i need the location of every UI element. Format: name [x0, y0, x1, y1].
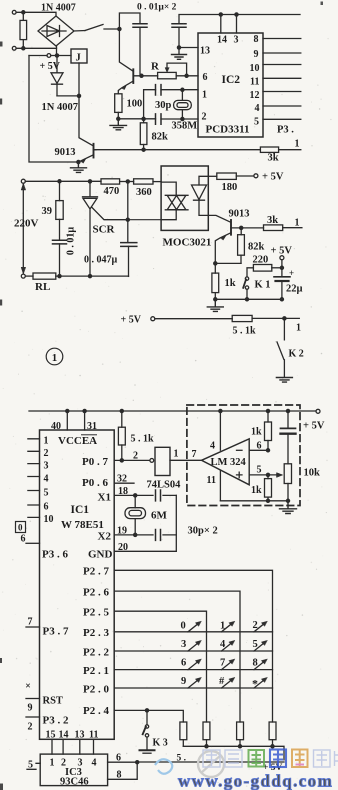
resistor pullup R3 — [237, 722, 244, 740]
wire pin4 V+ — [219, 411, 221, 450]
terminal +5V (keypad line) — [151, 317, 155, 321]
resistor 5.1k — [232, 315, 252, 321]
svg-text:6: 6 — [21, 534, 26, 545]
wire IC1 pin40 — [66, 411, 68, 430]
wire X2 pin19 — [114, 534, 176, 536]
svg-text:5 . 1k: 5 . 1k — [233, 326, 257, 337]
wire C1 bottom down to base node — [139, 27, 141, 76]
inverter input bubble — [150, 459, 154, 463]
ground under pot — [280, 501, 297, 514]
svg-text:#: # — [219, 676, 225, 687]
node dot K2 — [283, 317, 286, 320]
resistor 360 — [134, 179, 153, 184]
svg-text:3k: 3k — [267, 215, 278, 226]
svg-text:9: 9 — [254, 49, 259, 60]
terminal +5V relay — [47, 54, 51, 58]
bridge rectifier diamond — [38, 16, 74, 46]
capacitor filter — [287, 411, 289, 428]
svg-text:www.go-gddq.com: www.go-gddq.com — [178, 772, 333, 790]
wire X1 pin18 — [114, 494, 176, 496]
terminal mains bottom — [21, 274, 25, 278]
key 5 — [254, 642, 266, 651]
svg-text:X1: X1 — [98, 492, 111, 504]
svg-text:P2 . 6: P2 . 6 — [83, 587, 109, 599]
transistor Q1 driver (top middle) — [118, 29, 141, 94]
svg-text:10: 10 — [44, 514, 54, 525]
P0.6 stub pin32 — [114, 482, 134, 484]
wire P2.5 row to column A — [114, 611, 206, 722]
transistor Q2 9013 (relay driver) — [93, 144, 95, 158]
svg-text:IC1: IC1 — [71, 504, 90, 516]
bridge internal diode — [42, 26, 66, 37]
EA overline — [82, 434, 97, 436]
ground under 100 — [110, 119, 127, 130]
key 2 — [254, 623, 266, 632]
svg-text:P2 . 0: P2 . 0 — [83, 684, 109, 696]
dashed box comparator — [187, 405, 300, 506]
wire 220 right to +5V node — [272, 267, 282, 269]
node dot collector top — [118, 27, 121, 30]
node dot — [286, 499, 289, 502]
svg-text:1: 1 — [174, 449, 179, 460]
svg-text:GND: GND — [88, 549, 113, 561]
resistor 180 — [217, 173, 237, 179]
IC1 W78E51 box — [40, 430, 115, 739]
RST stub pin 9 — [26, 698, 40, 700]
terminal AC input bottom — [12, 46, 16, 50]
wire 220 left to K1 — [247, 268, 253, 277]
svg-text:1k: 1k — [251, 427, 262, 438]
svg-text:13: 13 — [200, 46, 210, 57]
node dot — [266, 499, 269, 502]
svg-text:SCR: SCR — [93, 224, 116, 236]
node dot K3 — [145, 709, 148, 712]
svg-text:220V: 220V — [14, 218, 39, 230]
wire IC2 pin14 — [220, 15, 222, 34]
key hash — [222, 679, 234, 688]
svg-text:31: 31 — [87, 421, 97, 432]
svg-text:30p: 30p — [155, 100, 172, 111]
wire cap to bottom rail — [59, 244, 61, 276]
wire 39 to cap — [59, 219, 61, 240]
svg-text:100: 100 — [127, 99, 143, 110]
svg-text:6: 6 — [203, 72, 208, 83]
svg-text:74LS04: 74LS04 — [147, 480, 182, 491]
svg-text:+ 5V: + 5V — [262, 172, 284, 183]
svg-text:+: + — [289, 268, 294, 278]
capacitor 30p (X2) — [156, 530, 161, 541]
wire top rail to IC2 top pins — [179, 15, 300, 24]
wire 100 bottom node — [117, 112, 119, 118]
svg-text:470: 470 — [104, 186, 120, 197]
wire gate branch vertical — [127, 182, 129, 243]
MOC triac side wiring — [161, 182, 176, 220]
SCR thyristor — [83, 181, 98, 276]
node dot base — [140, 74, 143, 77]
terminal mains top — [21, 179, 25, 183]
switch K1 — [245, 277, 248, 280]
svg-text:180: 180 — [222, 182, 238, 193]
potentiometer R — [142, 75, 158, 77]
wire P2.0 keypad row4 — [114, 687, 272, 689]
flyback diode 1N4007 — [51, 56, 63, 96]
resistor 1k — [214, 263, 216, 299]
node dot emitter — [77, 160, 80, 163]
svg-text:5: 5 — [257, 465, 262, 476]
svg-text:4: 4 — [255, 103, 260, 114]
capacitor 30p upper — [156, 85, 162, 95]
switch K3 — [146, 710, 148, 749]
resistor 1k lower — [267, 475, 269, 501]
op-amp LM324 triangle — [202, 439, 250, 485]
svg-text:P3 . 6: P3 . 6 — [42, 549, 68, 561]
resistor 220 — [253, 265, 271, 272]
wire bottom node rail — [215, 298, 282, 300]
watermark blue char — [270, 750, 286, 768]
key 9 — [188, 679, 200, 688]
wire resistor stems — [22, 12, 24, 48]
edge marks scan — [0, 42, 3, 790]
svg-text:7: 7 — [220, 658, 225, 669]
wire pot to IC2 pin6 — [176, 75, 198, 77]
scan tick top right — [321, 2, 324, 6]
wire terminal down — [281, 260, 283, 277]
wire P2.1 keypad row3 — [114, 669, 272, 671]
svg-text:2: 2 — [28, 722, 33, 733]
capacitor 0.01u (snubber) — [53, 240, 67, 244]
key 3 — [188, 642, 200, 651]
svg-text:P3 . 7: P3 . 7 — [43, 626, 69, 638]
svg-text:W 78E51: W 78E51 — [61, 519, 104, 531]
Q3 emitter arrowhead — [221, 235, 227, 240]
minus input mark — [237, 449, 243, 451]
wire +5V line to 5.1k — [155, 318, 232, 320]
svg-text:MOC3021: MOC3021 — [163, 237, 212, 249]
wire collector to 3k — [241, 227, 263, 229]
wire 0.047 to bottom rail — [128, 246, 130, 276]
svg-text:2: 2 — [253, 620, 258, 631]
wire J bottom — [78, 63, 80, 96]
wire P0.7 pin2 to inverter — [114, 459, 150, 461]
wire collector rail to 3k — [94, 149, 260, 151]
svg-text:82k: 82k — [248, 242, 265, 253]
svg-text:P2 . 1: P2 . 1 — [83, 665, 109, 677]
svg-text:1: 1 — [202, 90, 207, 101]
svg-text:11: 11 — [250, 77, 259, 88]
key 0 — [188, 623, 200, 632]
wire P2.6 row to column B — [114, 591, 240, 722]
wire 5.1k to edge — [252, 317, 299, 319]
node dot 39 top — [58, 180, 61, 183]
figure number circle 1 — [46, 348, 63, 365]
node dot gate — [126, 218, 129, 221]
wire MOC to Q3 base — [208, 215, 231, 222]
node dot Q3 collector — [240, 226, 243, 229]
svg-text:0: 0 — [181, 621, 186, 632]
node dot — [134, 533, 137, 536]
svg-text:22µ: 22µ — [286, 284, 303, 295]
wire osc net X2 row — [118, 118, 198, 120]
svg-text:9013: 9013 — [229, 209, 250, 220]
stray mark — [27, 684, 30, 687]
watermark faint char 2 — [225, 750, 242, 767]
svg-text:19: 19 — [117, 526, 127, 537]
optocoupler MOC3021 box — [161, 166, 208, 230]
wire osc return vertical — [175, 495, 177, 551]
resistor 3k (IC2 line) — [260, 147, 278, 152]
wire P2.4 — [114, 710, 183, 722]
svg-text:5: 5 — [254, 117, 259, 128]
wire input 6 — [249, 449, 268, 451]
svg-text:11: 11 — [89, 730, 98, 741]
ground under C2 — [172, 55, 187, 60]
wire 3k to edge — [283, 227, 302, 229]
capacitor 0.047u — [121, 243, 137, 247]
wiper arrowhead — [165, 68, 169, 73]
key 6 — [188, 660, 200, 669]
svg-text:14: 14 — [217, 35, 227, 46]
P3.2 stub pin 2 — [26, 716, 40, 718]
connector box 0 — [16, 522, 26, 533]
wire IC2 pin3 — [236, 15, 238, 34]
resistor pullup R1 — [180, 722, 187, 740]
svg-text:3: 3 — [234, 35, 239, 46]
inverter 74LS04 box — [155, 447, 170, 475]
svg-text:1: 1 — [44, 436, 49, 447]
svg-text:P3 . 2: P3 . 2 — [43, 715, 69, 727]
wire bottom rail with RL — [25, 275, 33, 277]
svg-text:10: 10 — [250, 63, 260, 74]
svg-text:3: 3 — [44, 461, 49, 472]
wire switch to node — [104, 28, 119, 30]
node dot crystal bottom — [181, 117, 184, 120]
capacitor C2 0.01u — [172, 24, 186, 27]
resistor pullup R2 — [203, 722, 210, 740]
svg-text:2: 2 — [44, 448, 49, 459]
svg-text:VCCEA: VCCEA — [58, 435, 97, 447]
svg-text:1k: 1k — [225, 278, 236, 289]
watermark faint char 3 — [314, 750, 331, 767]
wire pin11 V- — [219, 471, 221, 501]
svg-text:1: 1 — [50, 758, 55, 769]
IC1 pin stubs left — [28, 439, 40, 518]
watermark faint char 1 — [203, 750, 220, 767]
watermark blue swirl — [155, 759, 172, 774]
svg-text:K 2: K 2 — [289, 349, 304, 360]
wire 470 to 360 — [120, 181, 134, 183]
node dot — [214, 262, 217, 265]
svg-text:6: 6 — [181, 658, 186, 669]
svg-text:6: 6 — [257, 441, 262, 452]
svg-text:1N 4007: 1N 4007 — [42, 102, 78, 113]
svg-text:40: 40 — [51, 421, 61, 432]
transistor Q3 9013 (opto driver) — [230, 220, 232, 235]
resistor 5.1k (pullup) — [121, 411, 123, 460]
svg-text:1: 1 — [296, 323, 301, 334]
switch blade (mains) — [85, 25, 103, 31]
wire P2.7 row to column C — [114, 570, 272, 722]
svg-text:1k: 1k — [251, 485, 262, 496]
wire P2.3 keypad row1 — [114, 631, 272, 633]
SCR gate wire — [92, 207, 128, 220]
svg-text:0 . 01µ× 2: 0 . 01µ× 2 — [137, 3, 177, 13]
wire pot bottom — [287, 484, 289, 501]
key 7 — [222, 660, 234, 669]
crystal 358M — [181, 90, 183, 119]
node dot — [55, 54, 58, 57]
ground under 1k — [207, 299, 223, 311]
svg-text:10k: 10k — [304, 468, 321, 479]
wire 82k bottom to emitter node — [215, 262, 241, 264]
svg-text:12: 12 — [250, 90, 260, 101]
pot wiper arm — [167, 63, 187, 76]
capacitor C1 0.01u — [133, 24, 147, 27]
wire pullup rail — [183, 746, 284, 760]
svg-text:P3 .: P3 . — [277, 125, 294, 136]
svg-text:R: R — [151, 61, 160, 73]
svg-text:6: 6 — [44, 502, 49, 513]
svg-text:14: 14 — [59, 730, 69, 741]
wire AC top to bridge — [16, 12, 56, 16]
potentiometer 10k — [284, 464, 291, 484]
svg-text:32: 32 — [117, 474, 127, 485]
svg-text:9013: 9013 — [55, 147, 76, 158]
node dot — [58, 275, 61, 278]
svg-text:6M: 6M — [151, 510, 168, 522]
wire 360 to MOC — [153, 181, 161, 183]
svg-text:P2 . 5: P2 . 5 — [83, 607, 109, 619]
wire 3k right — [279, 149, 301, 151]
wire osc net X1 row — [144, 90, 198, 119]
node dot pin13 — [177, 46, 180, 49]
svg-text:5: 5 — [253, 639, 258, 650]
svg-text:3k: 3k — [268, 153, 279, 164]
resistor 39 — [59, 181, 61, 200]
terminal +5V rail — [316, 409, 320, 413]
wire emitter to left rail — [29, 56, 78, 163]
node dots rail pins 14,3 — [219, 13, 222, 16]
Q2 emitter arrowhead — [81, 158, 87, 163]
resistor 3k (page tag 1) — [264, 225, 283, 231]
node dot — [22, 11, 25, 14]
node dots — [205, 745, 208, 748]
svg-text:P2 . 3: P2 . 3 — [83, 627, 109, 639]
resistor 82k (osc) — [143, 119, 145, 150]
node dot — [120, 459, 123, 462]
node dot SCR anode — [88, 180, 91, 183]
node dot — [266, 473, 269, 476]
node dot — [22, 47, 25, 50]
resistor input (vertical) — [20, 20, 27, 39]
svg-text:1: 1 — [295, 139, 300, 150]
wire P2.2 keypad row2 — [114, 650, 272, 652]
MOC led side wiring — [199, 176, 208, 215]
resistor pullup R4 — [269, 722, 276, 740]
key 1 — [222, 623, 234, 632]
node dot SCR cathode — [88, 275, 91, 278]
svg-text:30p× 2: 30p× 2 — [188, 526, 218, 537]
svg-text:0: 0 — [18, 523, 23, 533]
node dot — [136, 761, 139, 764]
svg-text:2: 2 — [133, 451, 138, 462]
wire +5V top rail — [29, 410, 316, 412]
wire node up to cap C1 — [119, 13, 140, 29]
svg-text:*: * — [252, 677, 258, 691]
wire mains top rail — [25, 180, 101, 182]
svg-text:4: 4 — [210, 441, 215, 452]
svg-text:9: 9 — [28, 703, 33, 714]
wire J node down to Q2 base — [79, 96, 93, 146]
terminal +5V (K1) — [280, 256, 284, 260]
wire C2 bottom to gnd / pin13 — [179, 27, 198, 53]
svg-text:9: 9 — [181, 676, 186, 687]
svg-text:360: 360 — [136, 187, 152, 198]
node dots — [245, 298, 248, 301]
svg-text:P2 . 7: P2 . 7 — [83, 566, 109, 578]
wire input 5 with wiper arrow — [249, 474, 281, 476]
svg-text:11: 11 — [207, 475, 216, 486]
ground under Q2 — [71, 162, 87, 172]
switch K2 — [277, 318, 284, 376]
svg-text:5 . 1k: 5 . 1k — [131, 434, 155, 445]
svg-text:82k: 82k — [152, 132, 169, 143]
plus input mark — [237, 472, 243, 478]
svg-text:P0 . 6: P0 . 6 — [82, 477, 108, 489]
capacitor 22u electrolytic — [274, 276, 290, 278]
terminal +5V (180) — [254, 174, 258, 178]
svg-text:K 3: K 3 — [153, 738, 168, 749]
svg-text:+ 5V: + 5V — [271, 246, 293, 257]
terminal AC input top — [12, 10, 16, 14]
wire diode to J bottom — [57, 95, 79, 97]
node dot pot out — [185, 74, 188, 77]
wire bridge bottom drop — [56, 46, 58, 56]
node dot — [77, 94, 80, 97]
node dot — [117, 117, 120, 120]
MOC led triangle — [192, 185, 207, 200]
wire inverter out to LM324 — [170, 459, 202, 461]
svg-text:8: 8 — [254, 34, 259, 45]
resistor 470 — [101, 179, 120, 184]
svg-text:+ 5V: + 5V — [121, 315, 142, 326]
resistor 82k (base) — [240, 228, 242, 264]
svg-text:1: 1 — [220, 621, 225, 632]
svg-text:LM 324: LM 324 — [211, 457, 247, 468]
Q1 emitter arrowhead — [122, 85, 127, 90]
resistor 100 — [115, 94, 122, 113]
IC2 PCD3311 box — [198, 33, 263, 137]
wire bottom rail right — [56, 275, 129, 277]
IC1 bottom pins 15 14 13 11 — [52, 739, 94, 754]
svg-text:15: 15 — [46, 730, 56, 741]
watermark faint circle logo — [198, 751, 224, 777]
node dot 82k bottom — [142, 148, 145, 151]
node dot — [266, 449, 269, 452]
watermark green char — [249, 750, 265, 767]
wire IC1 pin31 — [84, 411, 86, 430]
svg-text:93C46: 93C46 — [60, 777, 89, 788]
key 4 — [222, 642, 234, 651]
svg-text:PCD3311: PCD3311 — [206, 124, 250, 136]
svg-text:RL: RL — [35, 281, 50, 293]
svg-text:13: 13 — [75, 730, 85, 741]
wire AC bottom to bridge — [16, 47, 56, 49]
svg-text:5: 5 — [44, 488, 49, 499]
svg-text:18: 18 — [118, 486, 128, 497]
svg-text:3: 3 — [181, 639, 186, 650]
relay coil J box — [71, 49, 87, 63]
node dot — [280, 266, 283, 269]
